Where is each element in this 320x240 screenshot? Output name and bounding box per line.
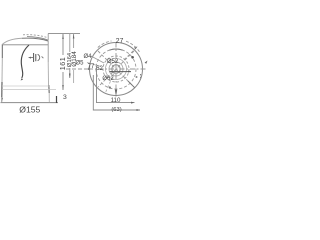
base / dimension line <box>1 102 59 104</box>
circle d4.5 <box>112 65 120 73</box>
body right side <box>47 41 49 62</box>
circle d7 <box>109 62 123 76</box>
top dim arc right <box>126 41 140 52</box>
base right tick <box>56 96 58 103</box>
hole dot right-top <box>131 56 134 59</box>
centerline extension dashes <box>66 68 88 70</box>
svg-text:62: 62 <box>96 66 103 72</box>
dome solid arc <box>2 38 22 45</box>
reflector curve with arrow <box>21 45 29 78</box>
dim 164 line (left of circle) <box>69 34 71 52</box>
svg-text:(63): (63) <box>111 107 121 113</box>
vertical centerline <box>115 43 117 97</box>
leader lines from labels <box>91 56 104 63</box>
dim 184 line <box>73 34 75 48</box>
base left arrow <box>2 97 4 103</box>
diagonal 45 NE-SW <box>98 51 134 87</box>
centerline left arrow mark <box>88 68 91 70</box>
dashed circle d20 <box>96 49 136 89</box>
SE diagonal solid end <box>128 81 135 88</box>
radial arrow top-right <box>124 47 138 61</box>
svg-text:3: 3 <box>63 94 67 101</box>
outer circle <box>90 43 143 96</box>
vertical centerline bottom arrow <box>115 90 117 97</box>
tick dots right <box>140 74 142 79</box>
circle d10.5 <box>106 59 127 80</box>
svg-text:Ø52: Ø52 <box>107 59 119 65</box>
bottom L dim outer <box>93 75 140 110</box>
bottom L dim inner <box>97 66 135 103</box>
hole dot right-low <box>136 76 138 78</box>
top dim arc left <box>98 41 112 48</box>
bulb leader arrow <box>29 57 33 59</box>
dashed circle d13 <box>103 56 129 82</box>
bulb tip tick <box>42 56 44 58</box>
dome dashed alternate arc <box>23 35 47 38</box>
svg-text:Ø62: Ø62 <box>102 76 114 82</box>
radial arrow tip far right <box>145 61 148 64</box>
bulb bars <box>33 53 35 62</box>
svg-text:Ø5: Ø5 <box>75 61 84 67</box>
svg-text:Ø155: Ø155 <box>19 105 40 115</box>
flange faint lines <box>2 85 49 87</box>
dia62 dim chord <box>110 71 132 73</box>
horizontal centerline <box>88 68 147 70</box>
hole dot bottom <box>109 86 111 88</box>
svg-text:27: 27 <box>116 38 124 45</box>
svg-text:110: 110 <box>111 97 121 104</box>
dashed circle d20 top solid arc <box>110 49 123 50</box>
body left side <box>1 45 3 58</box>
lower-left radial dashed extra <box>105 69 116 94</box>
body top line <box>3 44 49 46</box>
bulb glass arc <box>38 54 40 60</box>
top extension line <box>48 33 80 35</box>
svg-text:Ø4: Ø4 <box>83 54 92 60</box>
dim 161 line <box>62 34 64 55</box>
diagonal 45 NW-SE <box>98 51 134 87</box>
